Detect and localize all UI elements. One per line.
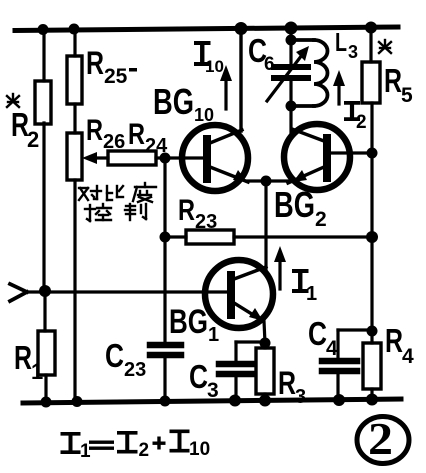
label R23: [178, 194, 217, 233]
svg-text:23: 23: [124, 359, 146, 381]
wire R23 bias row: [234, 235, 372, 238]
wire C6/L3 branch vertical: [289, 28, 292, 132]
asterisk mark near R2: [7, 94, 19, 107]
resistor R1: [38, 331, 55, 375]
resistor R26 (pot): [67, 133, 82, 180]
resistor R24: [108, 151, 156, 165]
asterisk mark near R5: [379, 40, 391, 53]
capacitor C6 (variable): [267, 46, 309, 101]
node dots R23 row: [160, 231, 379, 243]
svg-text:6: 6: [264, 54, 275, 75]
label equation I1 = I2 + I10: [61, 430, 211, 463]
label L3: [335, 27, 358, 62]
wire input signal line: [10, 284, 227, 301]
label R2: [11, 106, 39, 152]
node dot BG1 emitter: [260, 338, 271, 349]
svg-text:10: 10: [205, 57, 224, 76]
label R25: [86, 45, 137, 88]
figure number 2: [357, 414, 409, 464]
svg-text:R: R: [385, 322, 403, 359]
label C4: [308, 315, 338, 360]
svg-text:3: 3: [348, 42, 358, 62]
wire bias vertical (R24 junction down through R23 to C23): [163, 158, 166, 341]
resistor R23: [165, 230, 234, 244]
svg-text:3: 3: [207, 379, 219, 402]
label R3: [278, 365, 306, 408]
label R5: [384, 62, 413, 107]
svg-text:10: 10: [189, 439, 210, 460]
svg-text:25: 25: [104, 65, 128, 88]
capacitor C23: [150, 345, 181, 400]
wire R25-R26 vertical chain: [73, 28, 76, 400]
node dot C4/R4 junction: [367, 326, 378, 337]
svg-text:L: L: [335, 27, 347, 57]
node dot shared emitter: [261, 176, 272, 187]
label contrast control (Chinese) line2 控制: [85, 204, 146, 221]
node dots bottom rail: [41, 394, 379, 408]
svg-text:BG: BG: [274, 184, 315, 225]
wire shared emitter node down to BG1 collector: [264, 181, 267, 269]
svg-text:R: R: [384, 62, 402, 99]
svg-text:2: 2: [356, 112, 367, 133]
label BG1: [169, 303, 219, 346]
svg-text:R: R: [14, 339, 32, 376]
label BG10: [153, 81, 214, 125]
wire BG2 base to R5 node: [331, 151, 372, 154]
transistor BG10: [182, 125, 248, 191]
resistor R3: [256, 343, 274, 400]
label C23: [105, 337, 146, 381]
svg-text:2: 2: [139, 440, 150, 461]
node dot BG10 base junction: [160, 153, 171, 164]
svg-text:1: 1: [306, 283, 317, 305]
transistor BG1: [205, 260, 273, 343]
svg-text:1: 1: [31, 359, 43, 384]
svg-text:4: 4: [402, 345, 414, 368]
svg-text:R: R: [178, 194, 195, 227]
wire top supply rail: [15, 27, 398, 31]
svg-text:1: 1: [208, 324, 219, 346]
svg-text:C: C: [308, 315, 327, 352]
resistor R4: [363, 343, 381, 389]
svg-text:BG: BG: [153, 81, 194, 122]
label I2 with arrow: [333, 70, 367, 133]
svg-text:23: 23: [195, 211, 217, 233]
svg-text:1: 1: [80, 441, 91, 462]
label R26: [86, 114, 125, 153]
svg-text:2: 2: [368, 414, 393, 464]
node dot input junction: [39, 285, 51, 297]
node dots L3/C6: [286, 35, 297, 112]
label BG2: [274, 184, 327, 231]
label R1: [14, 339, 43, 384]
resistor R2: [35, 81, 51, 124]
svg-text:2: 2: [315, 208, 327, 231]
svg-text:R: R: [128, 118, 145, 151]
inductor L3: [291, 40, 328, 106]
svg-text:3: 3: [295, 386, 306, 408]
wire R5-R4 vertical chain: [371, 28, 372, 400]
svg-text:C: C: [189, 358, 208, 395]
label C3: [189, 358, 219, 402]
label R4: [385, 322, 414, 368]
wire BG10 emitter to shared node: [247, 179, 290, 182]
wire R24 to BG10 base: [156, 156, 203, 159]
resistor R25: [67, 56, 82, 104]
wire R24 wiper arrow into R26: [82, 152, 108, 164]
svg-text:BG: BG: [169, 303, 208, 341]
svg-text:R: R: [278, 365, 296, 401]
svg-text:4: 4: [326, 337, 338, 360]
svg-text:5: 5: [401, 84, 413, 107]
wire R2-R1 vertical chain: [44, 28, 46, 400]
capacitor C4: [322, 330, 372, 400]
wire bottom ground rail: [23, 399, 401, 403]
label C6: [248, 32, 275, 75]
label R24: [128, 118, 168, 157]
label I10 with arrow: [194, 41, 232, 109]
wire BG10 collector to top rail: [239, 28, 242, 131]
transistor BG2: [284, 124, 350, 190]
capacitor C3: [219, 342, 265, 400]
label I1 with arrow: [274, 246, 317, 305]
node dots top rail: [38, 22, 378, 36]
label contrast control (Chinese) line1 对比度: [79, 183, 156, 202]
node dot BG2 base: [367, 148, 378, 159]
svg-text:2: 2: [27, 127, 39, 152]
svg-text:R: R: [86, 45, 104, 81]
svg-text:C: C: [105, 337, 124, 374]
resistor R5: [362, 62, 380, 103]
svg-text:R: R: [86, 114, 103, 147]
svg-text:10: 10: [194, 105, 214, 125]
